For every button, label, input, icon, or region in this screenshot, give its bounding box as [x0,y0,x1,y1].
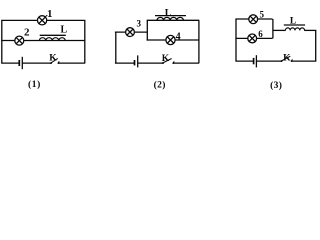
inductor iron core bar circuit 1 [40,34,66,36]
wire: bottom wire circuit 2, battery to switch [138,62,163,64]
wire: bottom wire circuit 3, segment left of battery [235,60,253,62]
wire: lamp 3 branch [115,31,147,33]
wire: right rail circuit 2 [198,20,200,63]
switch K circuit 1: right contact tick [58,61,59,63]
wire: coil to right rail circuit 3 [304,29,316,31]
wire: bottom wire circuit 1, segment right of switch [58,62,85,64]
battery circuit 2: long plate (positive) [137,55,139,67]
lamp 1 [38,16,47,25]
inductor iron core bar circuit 3 [284,24,305,26]
switch K circuit 3: left contact [281,60,283,62]
label K circuit 3 [283,54,291,64]
wire: top branch circuit 3 (lamp 5) [235,18,272,20]
lamp 6 [248,34,257,43]
label 3 (lamp 3) [137,19,142,29]
label (2) [154,80,166,91]
wire: left rail circuit 2 [115,32,117,63]
inductor coil L bumps circuit 3 [285,28,304,31]
switch K circuit 3: right contact tick [291,59,292,61]
label 1 (lamp 1) [47,8,53,20]
label L circuit 3 [290,17,296,27]
label L circuit 1 [61,24,68,35]
label 2 (lamp 2) [24,27,30,39]
wire: left rail circuit 3 [235,19,237,61]
wire: lamp 6 branch [235,37,272,39]
label K circuit 2 [162,54,170,64]
label (3) [270,80,282,91]
label 6 (lamp 6) [258,29,263,39]
svg-text:2: 2 [24,27,30,39]
wire: bottom wire circuit 3, battery to switch [256,60,281,62]
wire: bottom wire circuit 1, battery to switch [22,62,51,64]
label L circuit 2 [165,8,172,19]
switch K circuit 2: lever [163,59,172,63]
switch K circuit 1: lever [51,58,58,63]
battery circuit 3: short plate (negative) [253,58,255,64]
inductor coil L bumps circuit 1 [39,38,65,41]
svg-text:1: 1 [47,8,53,20]
wire: right rail circuit 1 [84,20,86,63]
svg-text:6: 6 [258,29,263,39]
wire: bottom wire circuit 1, segment left of battery [1,62,19,64]
lamp 2 [15,36,24,45]
wire: bottom wire circuit 2, segment left of battery [115,62,135,64]
lamp 5 [249,15,258,24]
wire: bottom wire circuit 2, segment right of switch [173,62,199,64]
wire: top branch circuit 1 (lamp 1) [1,19,85,21]
svg-text:4: 4 [176,32,181,43]
svg-text:(3): (3) [270,80,282,91]
svg-text:K: K [283,54,291,64]
battery circuit 2: short plate (negative) [134,60,136,65]
wire: lamp 4 branch [147,39,200,41]
svg-text:L: L [61,24,68,35]
svg-text:K: K [162,54,170,64]
lamp 3 [126,28,135,37]
svg-text:(2): (2) [154,80,166,91]
svg-text:3: 3 [137,19,142,29]
switch K circuit 3: lever [282,56,291,61]
inductor iron core bar circuit 2 [155,15,186,17]
wire: bottom wire circuit 3, segment right of switch [292,60,317,62]
wire: right rail circuit 3 [315,30,317,61]
wire: middle wire from box to coil [273,29,286,31]
svg-text:L: L [165,8,172,19]
svg-text:L: L [290,17,296,27]
battery circuit 3: long plate (positive) [255,55,257,67]
svg-text:(1): (1) [28,79,41,90]
leader tick for label 1 [45,15,47,17]
svg-text:K: K [49,53,57,63]
switch K circuit 1: left contact [50,62,52,64]
switch K circuit 2: right contact tick [173,61,174,63]
label K circuit 1 [49,53,57,63]
label 4 (lamp 4) [176,32,181,43]
battery circuit 1: long plate (positive) [21,57,23,69]
svg-text:5: 5 [260,9,265,19]
lamp 4 [166,35,175,44]
label 5 (lamp 5) [260,9,265,19]
label (1) [28,79,41,90]
wire: coil branch circuit 2 [147,19,200,21]
wire: left rail circuit 1 [1,20,3,63]
wire: parallel box right vertical circuit 3 [272,19,274,38]
battery circuit 1: short plate (negative) [18,60,20,66]
inductor coil L bumps circuit 2 [157,17,183,20]
wire: middle branch circuit 1 (lamp 2 + coil L) [1,40,85,42]
wire: parallel box left vertical circuit 2 [146,20,148,40]
switch K circuit 2: left contact [162,62,164,64]
